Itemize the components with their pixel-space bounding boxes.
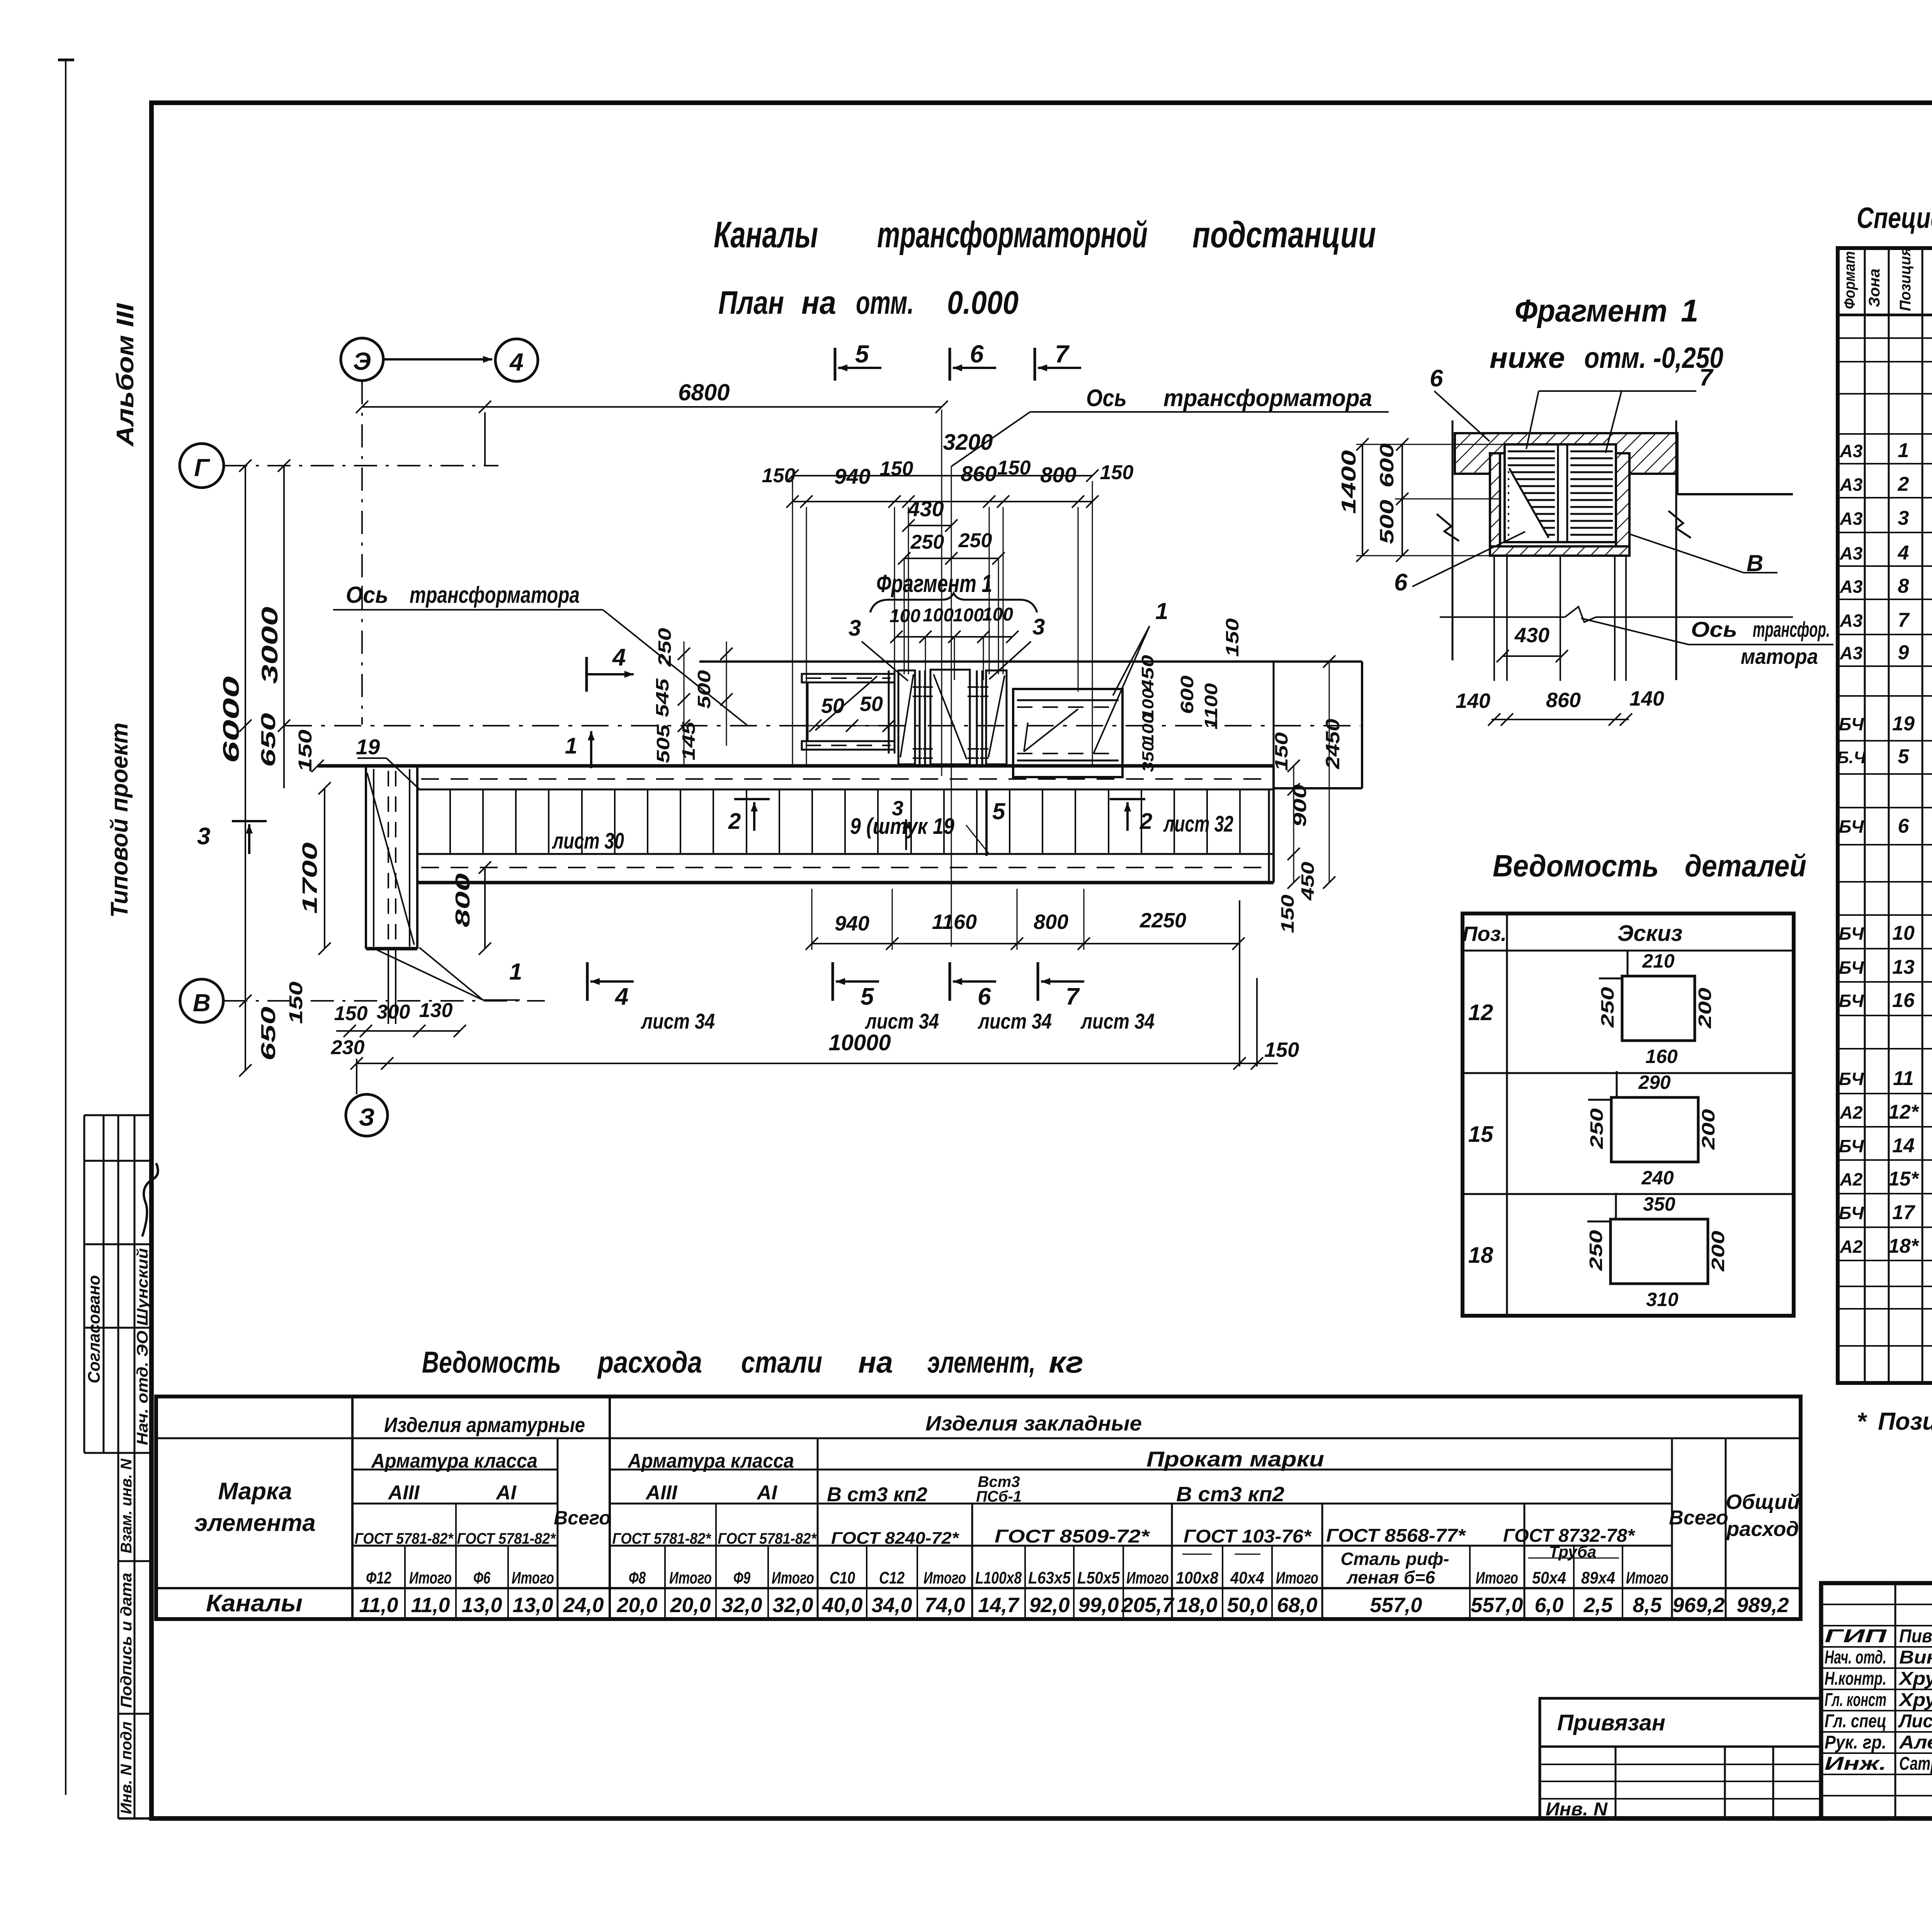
dimension 1700 left leg xyxy=(324,788,325,949)
ext line xyxy=(1395,498,1500,500)
svg-text:Общий: Общий xyxy=(1726,1490,1800,1514)
svg-text:150: 150 xyxy=(1277,894,1298,933)
svg-text:Подпись и дата: Подпись и дата xyxy=(118,1573,135,1708)
svg-text:лист 34: лист 34 xyxy=(864,1009,939,1033)
svg-text:А3: А3 xyxy=(1840,441,1863,461)
extension line xyxy=(908,507,909,674)
svg-text:ГОСТ 5781-82*: ГОСТ 5781-82* xyxy=(612,1530,712,1547)
svg-text:АIII: АIII xyxy=(388,1482,420,1504)
spec row line xyxy=(1838,565,1932,567)
spec row line xyxy=(1838,1193,1932,1194)
svg-text:8: 8 xyxy=(1898,575,1909,597)
svg-text:24,0: 24,0 xyxy=(563,1594,604,1617)
svg-text:Зона: Зона xyxy=(1866,269,1883,307)
svg-text:6: 6 xyxy=(970,340,984,368)
fragment wall verticals extending xyxy=(1452,420,1454,660)
svg-text:элемента: элемента xyxy=(194,1510,316,1536)
svg-text:Формат: Формат xyxy=(1841,251,1858,309)
col Марка right xyxy=(351,1397,354,1619)
svg-text:350: 350 xyxy=(1643,1193,1675,1215)
svg-text:13,0: 13,0 xyxy=(461,1594,502,1617)
svg-text:1: 1 xyxy=(565,733,577,759)
signature squiggle left stamp xyxy=(142,1163,158,1237)
svg-text:ГОСТ 5781-82*: ГОСТ 5781-82* xyxy=(718,1530,817,1547)
svg-text:Позиция: Позиция xyxy=(1897,247,1914,311)
svg-text:Итого: Итого xyxy=(512,1568,554,1587)
svg-text:Инж.: Инж. xyxy=(1825,1754,1886,1774)
section mark 6 top xyxy=(949,348,951,381)
svg-text:250: 250 xyxy=(910,531,944,553)
svg-text:150: 150 xyxy=(1100,461,1134,484)
svg-text:557,0: 557,0 xyxy=(1471,1594,1523,1617)
bolt clip xyxy=(968,748,979,750)
spec row line xyxy=(1838,773,1932,775)
spec row line xyxy=(1838,844,1932,845)
dimension 6000 left xyxy=(245,466,246,1001)
right end double line xyxy=(1268,789,1270,883)
svg-text:Ф12: Ф12 xyxy=(366,1568,391,1587)
svg-text:500: 500 xyxy=(694,670,714,709)
svg-text:18: 18 xyxy=(1468,1243,1493,1268)
section mark 5 bottom xyxy=(832,962,834,1001)
svg-text:А3: А3 xyxy=(1840,577,1863,597)
svg-text:План: План xyxy=(718,284,784,321)
svg-text:250: 250 xyxy=(958,529,992,552)
svg-text:трансформаторной: трансформаторной xyxy=(877,214,1148,255)
svg-text:7: 7 xyxy=(1898,609,1910,631)
svg-text:2450: 2450 xyxy=(1322,719,1344,769)
svg-text:Нач. отд. ЭО Шунский: Нач. отд. ЭО Шунский xyxy=(134,1248,151,1445)
dimension 3200 xyxy=(793,475,1092,476)
svg-text:34,0: 34,0 xyxy=(871,1594,912,1617)
spec row line xyxy=(1838,1093,1932,1094)
svg-text:1700: 1700 xyxy=(298,842,321,914)
svg-text:50: 50 xyxy=(860,692,883,716)
svg-text:1100: 1100 xyxy=(1201,683,1221,730)
svg-text:Лисичкин: Лисичкин xyxy=(1898,1711,1932,1732)
dim line 2450 xyxy=(1329,662,1330,883)
svg-text:*: * xyxy=(1857,1407,1867,1435)
svg-text:6: 6 xyxy=(1898,815,1910,837)
svg-text:14: 14 xyxy=(1892,1135,1915,1157)
I-beam end plate xyxy=(888,670,890,754)
svg-text:АIII: АIII xyxy=(645,1482,678,1504)
spec row line xyxy=(1838,1260,1932,1261)
leg dashed inner xyxy=(388,771,389,945)
fragment dim 430 xyxy=(1503,655,1562,657)
svg-text:19: 19 xyxy=(356,735,380,759)
axis circle Г xyxy=(180,444,224,488)
svg-text:трансформатора: трансформатора xyxy=(410,582,580,608)
svg-text:лист 34: лист 34 xyxy=(640,1009,715,1033)
svg-text:940: 940 xyxy=(834,464,870,488)
svg-text:150: 150 xyxy=(1264,1038,1299,1061)
svg-text:860: 860 xyxy=(961,461,997,486)
channel wall dashed lower xyxy=(421,867,1271,868)
svg-text:7: 7 xyxy=(1699,364,1714,391)
svg-text:92,0: 92,0 xyxy=(1029,1594,1070,1617)
svg-text:650: 650 xyxy=(257,1007,280,1061)
svg-text:Марка: Марка xyxy=(218,1478,292,1505)
svg-text:Ф9: Ф9 xyxy=(733,1568,750,1587)
spec row line xyxy=(1838,665,1932,667)
svg-text:150: 150 xyxy=(295,730,316,772)
svg-text:Итого: Итого xyxy=(1276,1568,1318,1587)
grating break triangle xyxy=(1509,469,1550,539)
svg-text:32,0: 32,0 xyxy=(772,1594,813,1617)
svg-text:Ось: Ось xyxy=(346,582,388,608)
svg-text:10: 10 xyxy=(1892,922,1915,944)
svg-text:БЧ: БЧ xyxy=(1839,1069,1864,1089)
bolt clip xyxy=(968,686,979,688)
dimension 6800 xyxy=(362,406,942,408)
spec row line xyxy=(1838,981,1932,983)
svg-text:Сталь риф-: Сталь риф- xyxy=(1340,1549,1449,1569)
leg bottom cap xyxy=(366,947,417,951)
svg-text:Ф6: Ф6 xyxy=(473,1568,490,1587)
svg-text:ГОСТ 5781-82*: ГОСТ 5781-82* xyxy=(355,1530,454,1547)
leader xyxy=(815,676,877,730)
spec row line xyxy=(1838,337,1932,339)
svg-text:800: 800 xyxy=(1040,463,1076,487)
svg-text:Хрупало: Хрупало xyxy=(1898,1690,1932,1710)
svg-text:лист 34: лист 34 xyxy=(977,1009,1052,1033)
svg-text:А3: А3 xyxy=(1840,611,1863,631)
section mark 7 bottom xyxy=(1037,962,1039,1001)
bolt clip xyxy=(980,748,988,750)
upper band outline middle/right xyxy=(699,660,1362,663)
extension line xyxy=(1078,507,1079,692)
spec row line xyxy=(1838,881,1932,883)
fragment left wall xyxy=(1490,453,1500,546)
left stamp table upper group xyxy=(84,1114,151,1116)
spec row line xyxy=(1838,1286,1932,1287)
embedded item I-beam left top flange xyxy=(802,674,895,682)
axis circle 4 xyxy=(495,339,538,381)
svg-text:Итого: Итого xyxy=(772,1568,814,1587)
svg-text:19: 19 xyxy=(1892,713,1915,735)
spec row line xyxy=(1838,433,1932,435)
svg-text:68,0: 68,0 xyxy=(1277,1594,1317,1617)
svg-text:230: 230 xyxy=(331,1036,365,1059)
channel wall top edge xyxy=(318,764,1274,768)
spec row line xyxy=(1838,948,1932,949)
svg-text:860: 860 xyxy=(1546,689,1581,712)
svg-text:матора: матора xyxy=(1741,644,1818,668)
svg-text:Изделия арматурные: Изделия арматурные xyxy=(384,1414,585,1437)
svg-text:450: 450 xyxy=(1138,655,1157,692)
channel inner bottom solid xyxy=(417,853,1274,855)
fragment floor step lines xyxy=(1676,474,1679,494)
extension line xyxy=(1092,481,1093,766)
dimension 430 xyxy=(908,525,951,526)
svg-text:Э: Э xyxy=(353,347,371,375)
spec row line xyxy=(1838,695,1932,697)
svg-text:Н.контр.: Н.контр. xyxy=(1825,1669,1886,1689)
inner leader xyxy=(1024,709,1078,752)
ext line xyxy=(1356,444,1505,445)
bolt clip xyxy=(923,748,933,750)
svg-text:С12: С12 xyxy=(879,1568,905,1587)
svg-text:ГОСТ 8509-72*: ГОСТ 8509-72* xyxy=(995,1526,1150,1547)
spec row line xyxy=(1838,1048,1932,1050)
grating cell dividers xyxy=(417,789,418,854)
svg-text:14,7: 14,7 xyxy=(978,1594,1020,1617)
svg-text:6000: 6000 xyxy=(219,676,244,763)
svg-text:3: 3 xyxy=(1032,614,1045,640)
svg-text:БЧ: БЧ xyxy=(1839,958,1864,978)
privyazan stamp table xyxy=(1540,1698,1821,1818)
svg-text:Итого: Итого xyxy=(1126,1568,1169,1587)
fragment concrete top slab xyxy=(1455,433,1677,474)
svg-text:БЧ: БЧ xyxy=(1839,816,1864,837)
svg-text:9: 9 xyxy=(1898,641,1909,664)
svg-text:450: 450 xyxy=(1298,861,1318,901)
svg-text:леная б=6: леная б=6 xyxy=(1346,1567,1435,1587)
leader to axis xyxy=(951,412,1030,466)
svg-text:150: 150 xyxy=(334,1002,368,1025)
svg-text:100: 100 xyxy=(953,605,984,626)
spec row line xyxy=(1838,914,1932,916)
svg-text:0.000: 0.000 xyxy=(947,284,1019,321)
svg-text:800: 800 xyxy=(1034,910,1068,934)
svg-text:Альбом III: Альбом III xyxy=(112,303,139,447)
svg-text:7: 7 xyxy=(1066,983,1080,1010)
fragment pit bottom slab xyxy=(1490,546,1629,556)
svg-text:лист 30: лист 30 xyxy=(552,828,624,854)
closure plate narrow pair 1 xyxy=(919,670,921,764)
svg-text:2250: 2250 xyxy=(1139,909,1186,932)
svg-text:100: 100 xyxy=(982,604,1013,625)
spec row line xyxy=(1838,634,1932,635)
svg-text:969,2: 969,2 xyxy=(1672,1594,1725,1617)
svg-text:Хрупало: Хрупало xyxy=(1898,1669,1932,1689)
svg-text:557,0: 557,0 xyxy=(1370,1594,1422,1617)
grating panels xyxy=(1505,444,1616,542)
embedded item I-beam left bottom flange xyxy=(802,741,895,750)
svg-text:Итого: Итого xyxy=(409,1568,452,1587)
svg-text:10000: 10000 xyxy=(828,1030,891,1055)
svg-text:11: 11 xyxy=(1893,1067,1914,1090)
svg-text:ГОСТ 8240-72*: ГОСТ 8240-72* xyxy=(831,1529,959,1548)
svg-text:20,0: 20,0 xyxy=(616,1594,657,1617)
svg-text:ниже: ниже xyxy=(1490,342,1565,374)
svg-text:250: 250 xyxy=(1586,1230,1606,1271)
svg-text:С10: С10 xyxy=(830,1568,855,1587)
svg-text:6800: 6800 xyxy=(678,379,730,405)
svg-text:250: 250 xyxy=(655,628,675,667)
svg-text:800: 800 xyxy=(452,873,474,927)
dimension 3000 left xyxy=(283,466,285,788)
section mark 2 left xyxy=(734,798,770,800)
svg-text:Арматура класса: Арматура класса xyxy=(371,1450,537,1472)
svg-text:200: 200 xyxy=(1695,987,1715,1029)
svg-text:Всего: Всего xyxy=(554,1507,611,1529)
extension line xyxy=(894,507,895,674)
svg-text:20,0: 20,0 xyxy=(670,1594,711,1617)
paper edge top tick xyxy=(58,59,74,61)
svg-text:89х4: 89х4 xyxy=(1581,1568,1615,1587)
axis circle З xyxy=(346,1094,388,1136)
svg-text:130: 130 xyxy=(419,999,453,1022)
extension dropper 2437 xyxy=(941,410,942,776)
axis dash-dot vertical from Э xyxy=(361,381,363,587)
I-beam left web xyxy=(807,682,809,741)
svg-text:элемент,: элемент, xyxy=(927,1345,1036,1379)
svg-text:Прокат марки: Прокат марки xyxy=(1146,1447,1324,1471)
spec row line xyxy=(1838,1226,1932,1228)
closure plate narrow pair 2 xyxy=(976,670,978,764)
svg-text:Позиции: Позиции xyxy=(1878,1407,1932,1435)
svg-text:600: 600 xyxy=(1376,443,1398,488)
svg-text:6: 6 xyxy=(978,983,991,1010)
svg-text:1: 1 xyxy=(1898,439,1909,462)
svg-text:расхода: расхода xyxy=(597,1345,702,1379)
svg-text:ГОСТ 8568-77*: ГОСТ 8568-77* xyxy=(1326,1526,1466,1546)
spec row line xyxy=(1838,532,1932,533)
svg-text:Итого: Итого xyxy=(923,1568,966,1587)
svg-text:Эскиз: Эскиз xyxy=(1617,921,1682,946)
bolt clip xyxy=(913,748,922,750)
svg-text:940: 940 xyxy=(835,912,869,935)
leg diagonal brace xyxy=(367,773,414,945)
svg-text:160: 160 xyxy=(1645,1046,1678,1067)
svg-text:Арматура класса: Арматура класса xyxy=(627,1450,794,1472)
svg-text:6: 6 xyxy=(1430,365,1443,392)
closure plate 2 (wide) xyxy=(930,670,970,764)
svg-text:А3: А3 xyxy=(1840,643,1863,663)
svg-text:стали: стали xyxy=(741,1345,822,1379)
spec row line xyxy=(1838,1308,1932,1310)
bolt clip xyxy=(923,686,933,688)
fragment dim 1400 xyxy=(1362,444,1363,556)
stamp bottom closure xyxy=(118,1817,151,1820)
spec header bottom xyxy=(1838,314,1932,316)
channel wall inner dashed xyxy=(421,778,1271,780)
svg-text:1160: 1160 xyxy=(932,910,977,934)
svg-text:650: 650 xyxy=(257,713,280,767)
svg-text:Изделия закладные: Изделия закладные xyxy=(925,1412,1142,1435)
svg-text:150: 150 xyxy=(762,464,796,487)
svg-text:4: 4 xyxy=(612,644,626,671)
svg-text:3: 3 xyxy=(892,797,903,820)
section mark 4 bottom xyxy=(586,962,589,1001)
svg-text:Нач. отд.: Нач. отд. xyxy=(1825,1647,1886,1668)
dim 10000 bottom xyxy=(357,1063,1278,1064)
svg-text:4: 4 xyxy=(614,983,628,1010)
svg-text:13: 13 xyxy=(1892,956,1915,978)
svg-text:5: 5 xyxy=(992,798,1006,824)
svg-text:АI: АI xyxy=(756,1482,778,1504)
dimension chain 150 940 150 860 150 800 150 xyxy=(793,501,1092,502)
svg-text:Взам. инв. N: Взам. инв. N xyxy=(118,1458,135,1553)
svg-text:деталей: деталей xyxy=(1685,849,1806,883)
svg-text:1: 1 xyxy=(1681,293,1699,328)
svg-text:17: 17 xyxy=(1892,1201,1915,1224)
section mark 7 top xyxy=(1034,348,1036,381)
svg-text:150: 150 xyxy=(880,458,913,480)
extension line xyxy=(806,507,807,766)
extension right end xyxy=(1239,900,1240,1067)
svg-text:Поз.: Поз. xyxy=(1463,922,1507,946)
svg-text:В ст3 кп2: В ст3 кп2 xyxy=(827,1483,927,1506)
spec row line xyxy=(1838,1015,1932,1016)
brace under Фрагмент 1 xyxy=(870,593,1037,612)
svg-text:лист 32: лист 32 xyxy=(1163,811,1233,837)
svg-text:12*: 12* xyxy=(1888,1101,1920,1123)
svg-text:6,0: 6,0 xyxy=(1534,1594,1563,1617)
svg-text:В: В xyxy=(193,989,211,1017)
svg-text:5: 5 xyxy=(861,983,874,1010)
fragment level line xyxy=(1440,616,1565,618)
svg-text:Фрагмент: Фрагмент xyxy=(1515,293,1667,328)
svg-text:430: 430 xyxy=(1514,624,1549,647)
channel bottom edge xyxy=(417,881,1274,885)
svg-text:150: 150 xyxy=(286,981,306,1024)
svg-text:6: 6 xyxy=(1394,569,1408,596)
support verticals below fragment xyxy=(1493,556,1495,681)
svg-text:3000: 3000 xyxy=(257,607,282,684)
extension line xyxy=(792,476,793,766)
svg-text:99,0: 99,0 xyxy=(1078,1594,1119,1617)
parts table frame xyxy=(1463,913,1794,1316)
svg-text:100: 100 xyxy=(923,605,954,626)
dim 800 at leg xyxy=(484,867,486,949)
section mark 6 bottom xyxy=(949,962,951,1001)
svg-text:Каналы: Каналы xyxy=(714,214,818,255)
svg-text:А2: А2 xyxy=(1840,1169,1863,1189)
axis В dash-dot horizontal xyxy=(224,1000,545,1002)
svg-text:2: 2 xyxy=(1139,809,1152,834)
svg-text:подстанции: подстанции xyxy=(1192,214,1376,255)
svg-text:240: 240 xyxy=(1641,1167,1674,1189)
spec row line xyxy=(1838,497,1932,498)
svg-text:Г: Г xyxy=(194,454,210,481)
section mark 5 top xyxy=(834,348,837,381)
svg-text:Сатрошина: Сатрошина xyxy=(1899,1754,1932,1774)
extension line xyxy=(989,507,990,674)
svg-text:210: 210 xyxy=(1642,950,1675,972)
right end wall xyxy=(1272,766,1275,883)
steel table frame xyxy=(156,1397,1801,1619)
svg-text:ГИП: ГИП xyxy=(1825,1626,1887,1647)
svg-text:А3: А3 xyxy=(1840,543,1863,563)
svg-text:150: 150 xyxy=(1222,618,1242,657)
svg-text:200: 200 xyxy=(1698,1109,1718,1150)
svg-text:205,7: 205,7 xyxy=(1121,1594,1175,1617)
spec row line xyxy=(1838,599,1932,600)
svg-text:Ведомость: Ведомость xyxy=(422,1345,561,1379)
extension line xyxy=(1003,507,1004,674)
svg-text:Ось: Ось xyxy=(1086,385,1127,412)
svg-text:Гл. конст: Гл. конст xyxy=(1825,1690,1886,1710)
svg-text:40х4: 40х4 xyxy=(1230,1568,1264,1587)
svg-text:Алехова: Алехова xyxy=(1899,1732,1932,1753)
svg-text:100: 100 xyxy=(1139,713,1157,744)
svg-text:Итого: Итого xyxy=(669,1568,712,1587)
svg-text:3: 3 xyxy=(197,823,210,850)
fragment dims 600 500 xyxy=(1401,444,1403,556)
bolt clip xyxy=(980,686,988,688)
svg-text:расход: расход xyxy=(1726,1517,1799,1541)
fragment dims 140 860 140 xyxy=(1492,719,1629,720)
svg-text:L63х5: L63х5 xyxy=(1028,1568,1071,1587)
svg-text:50х4: 50х4 xyxy=(1532,1568,1566,1587)
svg-text:430: 430 xyxy=(907,497,944,521)
svg-text:250: 250 xyxy=(1597,987,1617,1028)
svg-text:L100х8: L100х8 xyxy=(975,1568,1022,1587)
svg-text:1: 1 xyxy=(509,959,522,985)
